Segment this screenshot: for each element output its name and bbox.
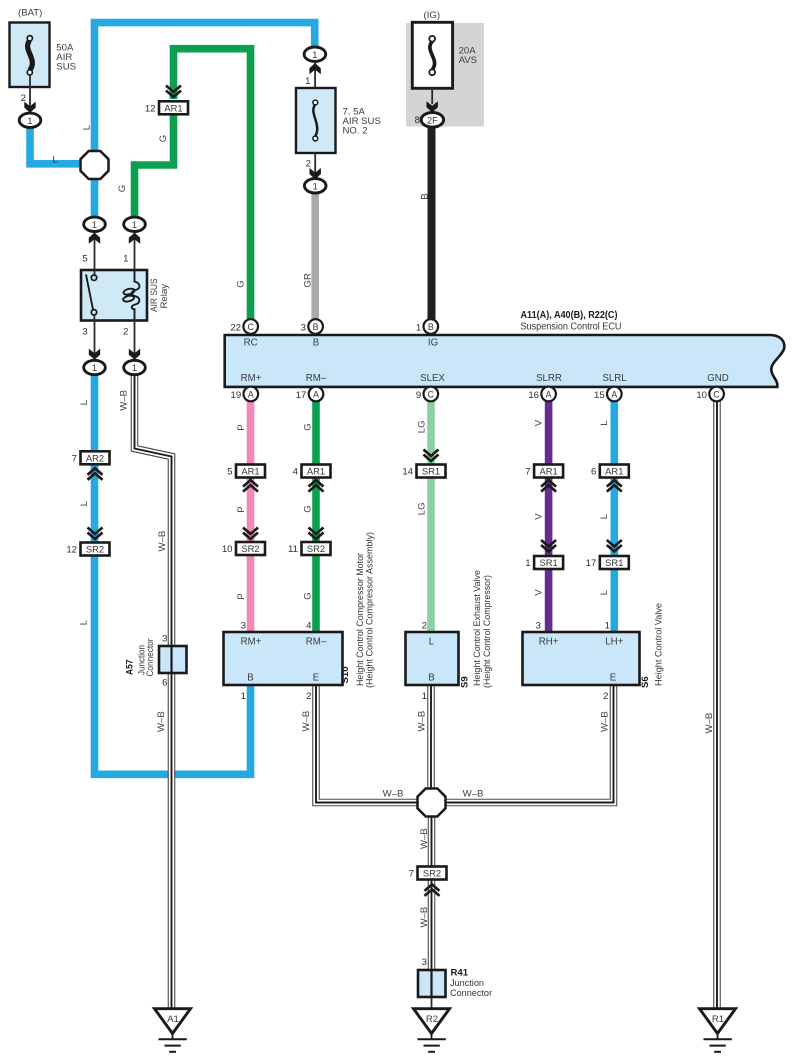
svg-text:A: A [546, 390, 552, 400]
svg-text:P: P [236, 424, 247, 430]
svg-text:B: B [428, 673, 434, 684]
svg-text:AR1: AR1 [164, 102, 182, 113]
svg-text:1: 1 [123, 253, 128, 264]
svg-text:IG: IG [428, 337, 438, 348]
svg-text:A57: A57 [124, 660, 135, 676]
svg-text:12: 12 [66, 545, 77, 556]
svg-text:GND: GND [707, 373, 729, 384]
svg-text:9: 9 [416, 390, 421, 401]
svg-text:B: B [313, 322, 319, 332]
wire V purple: ECU SLRR down to S6 [545, 401, 553, 633]
wire B black: 2F oval down to ECU pin IG [428, 126, 436, 320]
connector oval 1 (BAT) [19, 113, 41, 127]
wire: BAT fuse pin 2 lead [29, 75, 31, 110]
svg-text:C: C [248, 322, 255, 332]
connector oval 1 below relay pin3 [84, 360, 106, 374]
svg-text:S9: S9 [460, 676, 471, 688]
relay pin 5 lead and label [94, 232, 96, 271]
svg-text:B: B [247, 673, 253, 684]
svg-text:G: G [235, 280, 246, 287]
svg-text:RM–: RM– [306, 373, 327, 384]
connector AR1 pin5 (pink) with chevron up below [236, 465, 265, 478]
svg-text:1: 1 [305, 76, 310, 87]
svg-text:2: 2 [603, 691, 608, 702]
svg-text:A: A [611, 390, 617, 400]
connector AR2 pin7 (blue left) with chevron up below [81, 451, 110, 464]
svg-text:E: E [610, 673, 617, 684]
svg-text:2: 2 [123, 326, 128, 337]
svg-text:Height Control Valve: Height Control Valve [654, 603, 664, 686]
wire: IG fuse pin 8 lead [431, 88, 433, 104]
gray background behind IG fuse [406, 23, 484, 127]
fuse 50A AIR SUS (BAT) [10, 8, 77, 87]
svg-text:SR2: SR2 [307, 543, 325, 554]
svg-text:SR2: SR2 [86, 544, 104, 555]
arrow up into oval [309, 63, 320, 74]
svg-text:L: L [429, 636, 435, 647]
svg-text:AR1: AR1 [605, 466, 623, 477]
svg-text:AR2: AR2 [86, 452, 104, 463]
wire GR gray: 7.5A oval down to ECU pin B [311, 192, 319, 320]
arrow up into oval (relay pin1) [129, 233, 140, 244]
svg-text:SLRR: SLRR [536, 373, 562, 384]
svg-text:Suspension Control ECU: Suspension Control ECU [521, 322, 622, 333]
svg-text:GR: GR [302, 273, 313, 287]
wire L blue: ECU SLRL down to S6 [610, 401, 618, 633]
svg-text:W–B: W–B [704, 713, 715, 734]
svg-text:SR1: SR1 [605, 557, 623, 568]
svg-text:11: 11 [288, 544, 298, 555]
svg-text:V: V [533, 513, 544, 520]
svg-text:12: 12 [145, 103, 156, 114]
svg-text:B: B [313, 337, 319, 348]
svg-text:B: B [419, 193, 430, 199]
svg-text:L: L [599, 513, 610, 519]
svg-text:C: C [713, 390, 720, 400]
svg-text:E: E [313, 673, 320, 684]
svg-text:1: 1 [27, 115, 32, 126]
ECU pin circle 9 C [416, 387, 438, 402]
wire: 7.5A fuse pin 1 lead [314, 62, 316, 89]
svg-text:5: 5 [82, 253, 87, 264]
connector SR2 pin12 (blue left) with chevron down above [88, 528, 103, 540]
svg-text:C: C [428, 390, 435, 400]
svg-text:1: 1 [241, 691, 246, 702]
svg-text:3: 3 [301, 322, 306, 333]
svg-text:LG: LG [416, 502, 427, 515]
svg-text:AVS: AVS [459, 55, 477, 66]
svg-text:W–B: W–B [463, 789, 484, 800]
svg-text:SR2: SR2 [241, 543, 259, 554]
svg-text:W–B: W–B [419, 828, 430, 849]
svg-text:1: 1 [132, 219, 137, 230]
svg-text:P: P [236, 593, 247, 599]
fuse 20A AVS (IG) [412, 10, 477, 88]
svg-text:RM+: RM+ [241, 373, 262, 384]
svg-text:1: 1 [92, 219, 97, 230]
ECU Suspension Control ECU band [225, 335, 785, 387]
svg-text:A1: A1 [167, 1014, 179, 1025]
relay AIR SUS Relay [81, 270, 170, 321]
svg-text:W–B: W–B [416, 711, 427, 732]
svg-text:3: 3 [241, 620, 246, 631]
connector SR2 pin11 (green) with chevron down above [309, 528, 324, 540]
connector SR2 pin7 (W-B bottom) with chevron up below [418, 867, 447, 880]
svg-text:17: 17 [586, 558, 597, 569]
wire G green: top loop from AR1(12) to 7.5A... across and down to ECU RC [174, 49, 251, 320]
svg-text:22: 22 [230, 322, 241, 333]
ground A1 [155, 1009, 191, 1052]
relay pin 1 lead and label [134, 232, 136, 271]
svg-text:L: L [81, 124, 92, 130]
svg-text:1: 1 [132, 362, 137, 373]
svg-text:1: 1 [422, 691, 427, 702]
wire: 7.5A fuse pin 2 lead [314, 153, 316, 178]
svg-text:W–B: W–B [383, 789, 404, 800]
svg-text:V: V [533, 589, 544, 596]
svg-text:L: L [599, 589, 610, 595]
svg-text:L: L [78, 619, 89, 625]
ECU pin circle 10 C [696, 387, 724, 402]
relay pin 3 lead and label [94, 321, 96, 359]
svg-text:A11(A), A40(B), R22(C): A11(A), A40(B), R22(C) [521, 310, 618, 321]
ECU pin circle 16 A [528, 387, 556, 402]
svg-text:SUS: SUS [56, 62, 76, 73]
svg-text:RC: RC [244, 337, 258, 348]
ground R2 [414, 1009, 450, 1052]
svg-text:2: 2 [306, 691, 311, 702]
svg-text:W–B: W–B [118, 390, 129, 411]
svg-text:(BAT): (BAT) [18, 8, 42, 19]
svg-text:Connector: Connector [450, 988, 492, 998]
svg-text:19: 19 [231, 390, 242, 401]
connector oval 1 below relay pin2 [124, 360, 146, 374]
component S6 Height Control Valve [523, 603, 664, 702]
connector AR1 pin7 (purple) with chevron up below [534, 465, 563, 478]
svg-text:15: 15 [594, 390, 605, 401]
svg-text:R41: R41 [451, 968, 469, 979]
svg-text:RM+: RM+ [241, 636, 262, 647]
wire L blue: BAT oval to octagon [30, 124, 86, 164]
svg-text:1: 1 [525, 558, 530, 569]
svg-text:LG: LG [416, 420, 427, 433]
svg-text:G: G [302, 423, 313, 430]
wire W-B: S6 pin E down and left to octagon joint [432, 685, 614, 803]
arrow down into oval (relay pin2) [129, 349, 140, 360]
connector SR1 pin1 (purple) with chevron down above [541, 540, 556, 552]
connector oval 2F [421, 113, 443, 128]
svg-text:L: L [52, 155, 58, 166]
svg-text:2: 2 [422, 620, 427, 631]
svg-text:R1: R1 [712, 1014, 724, 1025]
svg-text:AR1: AR1 [241, 466, 259, 477]
svg-text:A: A [313, 390, 319, 400]
wire L blue: octagon up, across top, down to 7.5A fuse oval [95, 23, 315, 155]
connector oval 1 above relay pin5 [84, 217, 106, 231]
arrow down into oval (relay pin3) [89, 349, 100, 360]
ground R1 [700, 1009, 736, 1052]
svg-text:7: 7 [72, 453, 77, 464]
ECU pin circle 15 A [594, 387, 622, 402]
svg-text:A: A [248, 390, 254, 400]
svg-text:2: 2 [21, 93, 26, 104]
svg-text:14: 14 [402, 467, 413, 478]
svg-text:1: 1 [312, 49, 317, 60]
wire LG light green: ECU SLEX down to S9 [427, 401, 435, 633]
ECU pin circle 19 A [231, 387, 259, 402]
svg-text:G: G [117, 185, 128, 192]
connector AR1 pin6 (blue right) with chevron up below [600, 465, 629, 478]
ECU pin circle 17 A [296, 387, 324, 402]
svg-text:W–B: W–B [301, 711, 312, 732]
svg-text:6: 6 [591, 467, 596, 478]
ECU pin circle 1 B [416, 319, 438, 334]
connector AR1 pin12 (green top) with chevron down [166, 86, 181, 98]
svg-text:B: B [428, 322, 434, 332]
svg-text:10: 10 [222, 544, 233, 555]
svg-text:S6: S6 [640, 676, 651, 688]
svg-text:6: 6 [162, 678, 167, 689]
svg-text:SR2: SR2 [423, 868, 441, 879]
svg-text:V: V [533, 419, 544, 426]
svg-text:AR1: AR1 [307, 466, 325, 477]
svg-text:1: 1 [416, 322, 421, 333]
svg-text:G: G [302, 505, 313, 512]
svg-text:2F: 2F [427, 115, 438, 125]
connector SR2 pin10 (pink) with chevron down above [243, 528, 258, 540]
svg-text:SLEX: SLEX [420, 373, 445, 384]
svg-text:LH+: LH+ [605, 636, 623, 647]
svg-text:1: 1 [605, 620, 610, 631]
component S9 Height Control Exhaust Valve [406, 570, 492, 702]
svg-text:17: 17 [296, 390, 307, 401]
ECU pin circle 22 C [230, 319, 258, 334]
connector oval 1 below 7.5A fuse [304, 179, 326, 193]
svg-text:Height Control Compressor Moto: Height Control Compressor Motor [355, 553, 365, 686]
svg-text:5: 5 [227, 467, 232, 478]
octagon junction node (L) top-left [81, 151, 109, 179]
svg-text:Connector: Connector [145, 639, 155, 677]
svg-text:(Height Control Compressor Ass: (Height Control Compressor Assembly) [365, 532, 375, 688]
connector AR1 pin4 (green) with chevron up below [302, 465, 331, 478]
connector SR1 pin14 (light green) with chevron down above [424, 450, 439, 462]
connector SR1 pin17 (blue right) with chevron down above [607, 540, 622, 552]
svg-text:SR1: SR1 [539, 557, 557, 568]
fuse 7.5A AIR SUS NO.2 [296, 88, 381, 153]
svg-text:(Height Control Compressor): (Height Control Compressor) [482, 575, 492, 688]
relay pin 2 lead and label [134, 321, 136, 359]
wire G green: ECU RM- down to S10 [312, 401, 320, 633]
arrow down into oval [310, 168, 321, 179]
svg-text:L: L [599, 420, 610, 426]
wire W-B: S10 pin E down and right to octagon joint [316, 685, 432, 803]
svg-text:AR1: AR1 [539, 466, 557, 477]
svg-text:W–B: W–B [599, 711, 610, 732]
arrow up into oval (relay pin5) [89, 233, 100, 244]
wire G green: below AR1(12) down, left, down to relay oval [135, 114, 174, 218]
svg-text:NO. 2: NO. 2 [343, 125, 368, 136]
wire P pink: ECU RM+ down to S10 [247, 401, 255, 633]
svg-text:W–B: W–B [156, 711, 167, 732]
svg-text:16: 16 [528, 390, 539, 401]
svg-text:W–B: W–B [419, 907, 430, 928]
component S10 Height Control Compressor Motor [224, 532, 375, 702]
wire L blue: octagon down to relay oval 1 [91, 175, 99, 218]
svg-text:1: 1 [92, 362, 97, 373]
svg-text:8: 8 [415, 115, 420, 126]
svg-text:L: L [79, 399, 90, 405]
svg-text:3: 3 [422, 957, 427, 968]
svg-text:4: 4 [293, 467, 299, 478]
svg-text:Height Control Exhaust Valve: Height Control Exhaust Valve [472, 570, 482, 686]
connector oval 1 above relay pin1 [124, 217, 146, 231]
svg-text:P: P [236, 506, 247, 512]
svg-text:7: 7 [409, 869, 414, 880]
svg-text:RH+: RH+ [539, 636, 559, 647]
svg-text:3: 3 [82, 326, 87, 337]
svg-text:RM–: RM– [306, 636, 327, 647]
svg-text:2: 2 [306, 159, 311, 170]
svg-text:L: L [79, 500, 90, 506]
svg-text:10: 10 [696, 390, 707, 401]
wire W-B: relay pin2 oval down with jog, to ground A1 [135, 374, 172, 1008]
svg-text:Relay: Relay [159, 284, 170, 309]
svg-text:4: 4 [306, 620, 312, 631]
svg-text:S10: S10 [340, 666, 351, 683]
wire W-B: S9 pin B down to octagon joint [427, 685, 435, 803]
svg-text:Junction: Junction [450, 978, 484, 988]
wire L blue: relay pin3 oval down, across bottom, up to S10 pin B [95, 374, 251, 774]
svg-text:7: 7 [525, 467, 530, 478]
connector oval 1 above 7.5A fuse [304, 47, 326, 61]
svg-text:R2: R2 [426, 1014, 438, 1025]
wire W-B: ECU GND down to ground R1 [713, 401, 721, 1009]
svg-text:3: 3 [536, 620, 541, 631]
svg-text:G: G [158, 135, 169, 142]
svg-text:3: 3 [162, 634, 167, 645]
junction connector R41 [418, 957, 492, 1009]
ECU pin circle 3 B [301, 319, 323, 334]
svg-text:W–B: W–B [157, 531, 168, 552]
arrow down into 2F oval [427, 101, 438, 112]
arrow down into oval [24, 102, 35, 113]
junction connector A57 [124, 634, 186, 689]
octagon junction node (W-B) bottom-center [418, 789, 446, 817]
svg-text:1: 1 [313, 181, 318, 192]
svg-text:G: G [302, 592, 313, 599]
wire W-B: octagon joint down through SR2(7) to R41 [428, 803, 436, 971]
svg-text:SR1: SR1 [422, 466, 440, 477]
svg-text:SLRL: SLRL [602, 373, 627, 384]
svg-text:(IG): (IG) [424, 10, 441, 21]
